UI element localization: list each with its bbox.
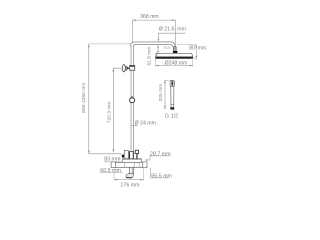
mixer left cap (111, 162, 115, 168)
valve block upper (123, 159, 142, 162)
black union square (122, 155, 125, 158)
svg-text:800-1250 mm: 800-1250 mm (81, 83, 87, 113)
wand connector (171, 104, 174, 106)
svg-text:368 mm: 368 mm (140, 14, 158, 20)
head stub (174, 47, 177, 51)
mixer right cap (143, 162, 147, 168)
arm tube (132, 43, 174, 47)
dim 176 mm (114, 169, 144, 181)
svg-text:225 mm: 225 mm (158, 84, 164, 102)
mixer seams (125, 162, 139, 167)
svg-text:95.5 mm: 95.5 mm (151, 173, 172, 179)
head nut (173, 51, 178, 54)
svg-text:51.5 mm: 51.5 mm (147, 46, 153, 65)
dim Ø248 mm (155, 54, 192, 67)
svg-text:28.7 mm: 28.7 mm (150, 152, 171, 158)
dim 51.5 mm (157, 45, 159, 53)
svg-text:G1/2: G1/2 (164, 45, 171, 49)
riser collar top (130, 65, 135, 70)
wand handle (171, 86, 174, 107)
svg-text:mm: mm (177, 27, 186, 33)
svg-text:83 mm: 83 mm (104, 156, 121, 162)
svg-text:mm: mm (198, 46, 207, 52)
spout outlet hook (126, 173, 134, 177)
bracket block (124, 151, 128, 159)
svg-text:Ø248 mm: Ø248 mm (165, 60, 188, 66)
svg-text:720.3 mm: 720.3 mm (107, 102, 113, 124)
svg-text:176 mm: 176 mm (120, 182, 140, 188)
dim 720.3 mm (113, 68, 122, 152)
clamp wedge (127, 67, 129, 70)
svg-text:60.5 mm: 60.5 mm (100, 168, 121, 174)
svg-text:G 1/2: G 1/2 (165, 113, 178, 119)
rain head disc (156, 52, 173, 54)
wall flange (122, 65, 125, 72)
dim 368 mm top (132, 20, 175, 46)
svg-text:Ø 21.6: Ø 21.6 (159, 27, 175, 33)
dim 225 mm (164, 80, 170, 108)
riser hose fitting (129, 151, 133, 159)
dim 800-1250 mm (89, 44, 122, 154)
extension line left (800-1250 top ref) (89, 43, 131, 45)
svg-text:80: 80 (189, 46, 195, 52)
svg-text:Ø 24 mm: Ø 24 mm (135, 120, 156, 126)
hand shower wand head (170, 81, 174, 87)
dim 80 mm (177, 44, 196, 59)
diverter knob (135, 150, 138, 153)
riser pipe (131, 46, 134, 160)
rain head face (155, 57, 193, 59)
mixer body bar (112, 162, 147, 167)
slider knob (130, 98, 135, 103)
spout tube (130, 167, 134, 173)
